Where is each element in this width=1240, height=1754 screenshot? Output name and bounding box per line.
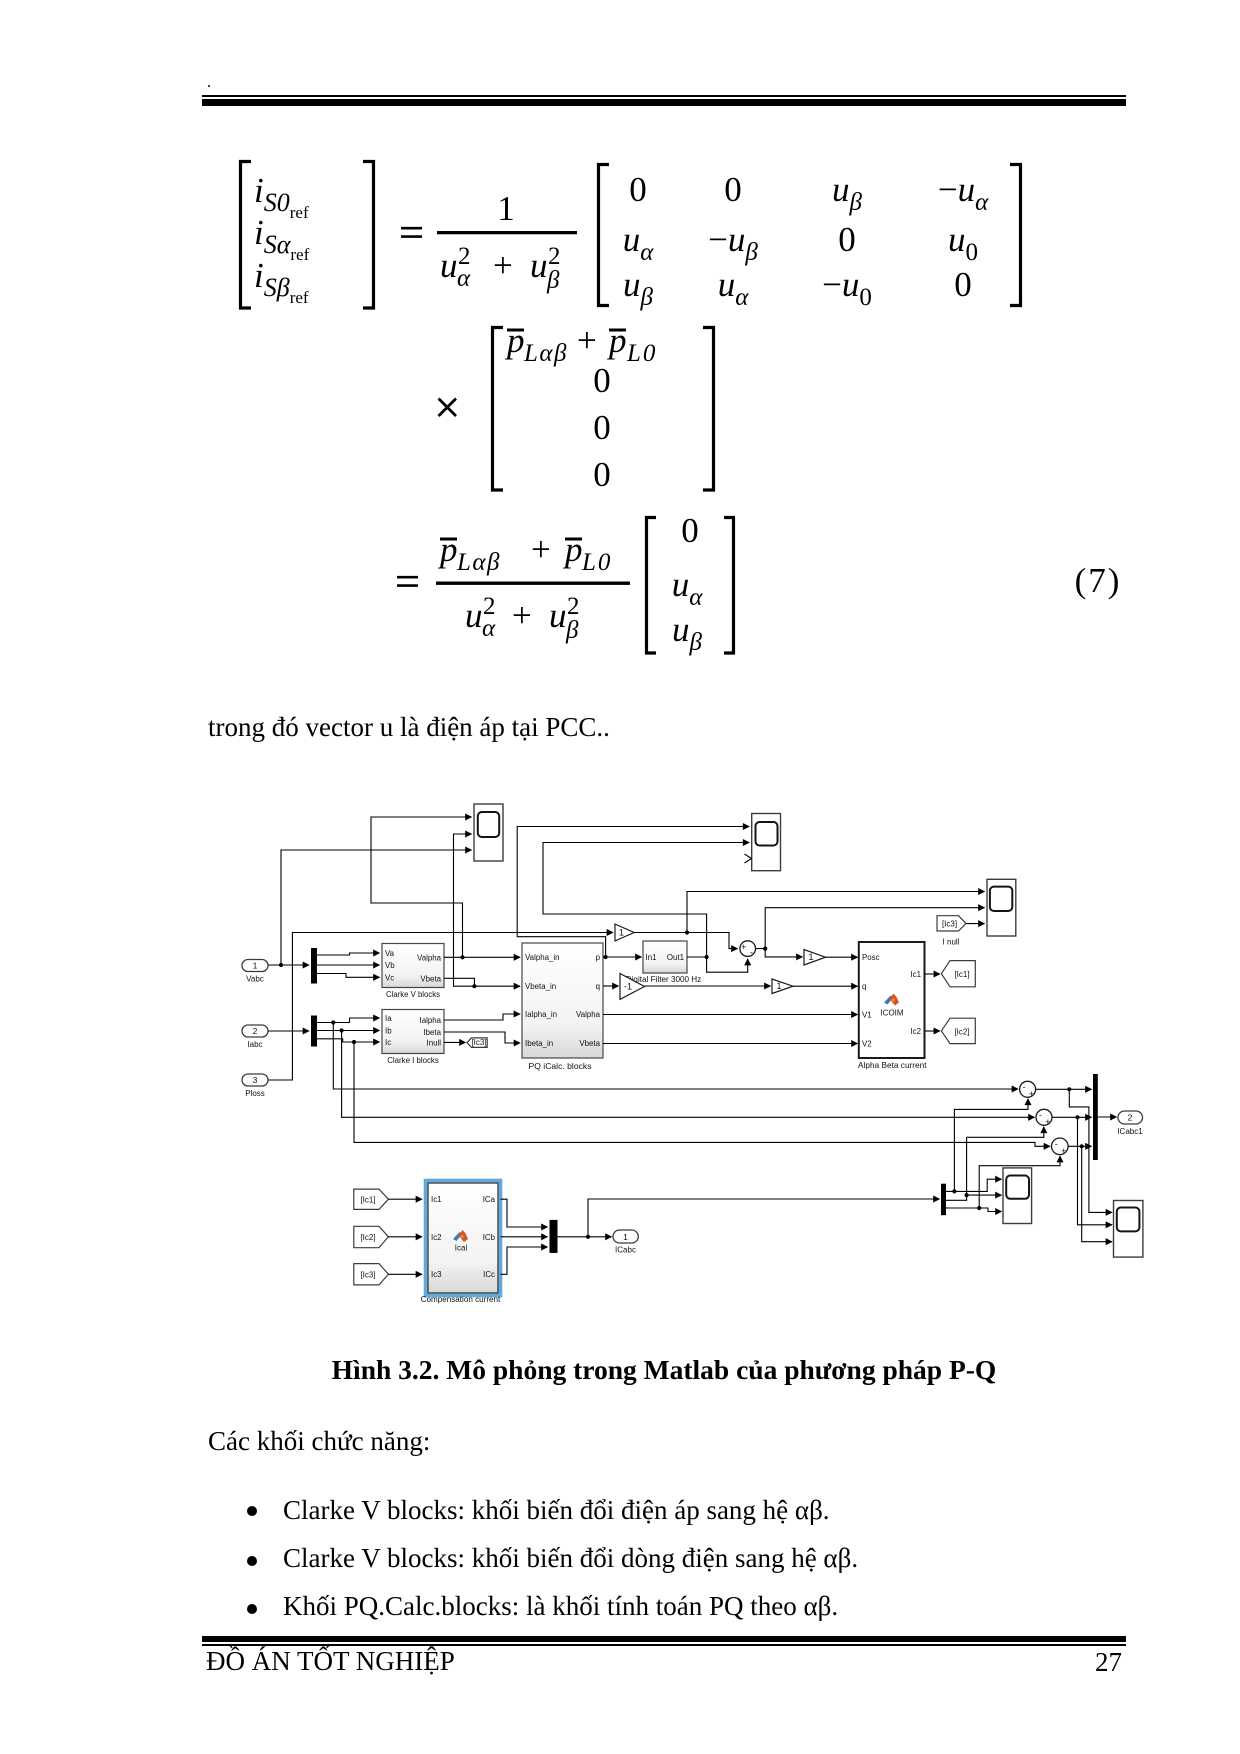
DIAGRAM SVG: [230, 790, 1180, 1320]
caption: [205, 1356, 1123, 1384]
matlab logo: [884, 994, 899, 1006]
svg-text:0: 0: [838, 220, 856, 259]
wire Ic tap to sum C: [354, 1042, 1050, 1146]
svg-text:Inull: Inull: [427, 1038, 442, 1047]
svg-text:u: u: [465, 596, 483, 635]
junction demux out1 tap: [952, 1189, 956, 1193]
junction ICabc: [586, 1235, 590, 1239]
equals 1: [401, 228, 422, 236]
svg-text:Vabc: Vabc: [246, 975, 264, 984]
matrix bracket right: [1010, 165, 1021, 306]
wire Vbeta branch to scope1 in2: [454, 834, 475, 986]
svg-text:(7): (7): [1075, 561, 1122, 600]
svg-text:Valpha_in: Valpha_in: [525, 953, 560, 962]
wire sum B out to big mux: [1052, 1116, 1092, 1118]
svg-text:V2: V2: [862, 1040, 872, 1049]
svg-text:q: q: [596, 982, 600, 991]
svg-text:p: p: [562, 530, 583, 569]
svg-text:[Ic2]: [Ic2]: [360, 1233, 375, 1242]
junction G1 out: [685, 930, 689, 934]
junction Vbeta: [472, 984, 476, 988]
svg-text:−u0: −u0: [822, 265, 872, 311]
svg-text:β: β: [546, 267, 560, 294]
wire q to gain G2: [603, 985, 619, 987]
wire demux out3 to scope4 in3: [946, 1208, 1002, 1212]
svg-text:[Ic3]: [Ic3]: [471, 1038, 486, 1047]
svg-text:−uα: −uα: [938, 170, 989, 216]
svg-text:Out1: Out1: [667, 953, 684, 962]
svg-text:0: 0: [593, 455, 611, 494]
wire tag Ic1 to Compensation: [388, 1198, 422, 1200]
svg-text:+: +: [1029, 1089, 1034, 1099]
svg-text:Lαβ: Lαβ: [523, 340, 568, 367]
rhs vector bracket left: [647, 518, 657, 654]
svg-text:Valpha: Valpha: [576, 1010, 601, 1019]
svg-text:Vbeta_in: Vbeta_in: [525, 982, 556, 991]
junction sum A out: [1067, 1087, 1071, 1091]
tiny period above header rule: [208, 85, 210, 87]
svg-text:[Ic3]: [Ic3]: [942, 919, 957, 928]
wire sum C branch to scope5 in3: [1082, 1146, 1112, 1241]
svg-text:Ibeta: Ibeta: [423, 1028, 441, 1037]
svg-text:Ic: Ic: [385, 1038, 391, 1047]
times sign: [439, 399, 457, 417]
wire ICabc branch to demux: [588, 1199, 940, 1237]
svg-text:1: 1: [497, 189, 515, 228]
wire ICb to mux3: [501, 1236, 548, 1238]
wire tag Ic3 to Compensation: [388, 1273, 422, 1275]
mux V (black bar): [311, 948, 317, 984]
section lead: [208, 1428, 430, 1455]
svg-text:ICb: ICb: [483, 1233, 496, 1242]
svg-text:2: 2: [253, 1026, 258, 1036]
wire ICa to mux3: [501, 1199, 548, 1227]
svg-text:3: 3: [253, 1075, 258, 1085]
svg-text:PQ iCalc. blocks: PQ iCalc. blocks: [529, 1062, 592, 1071]
wire G1 branch to scope3 in1: [687, 892, 985, 933]
scope 1: [474, 804, 503, 861]
svg-text:-: -: [1055, 1139, 1058, 1149]
svg-text:Vc: Vc: [385, 973, 394, 982]
svg-text:L0: L0: [581, 549, 612, 576]
scope 2: [745, 814, 781, 871]
svg-text:Ic1: Ic1: [910, 970, 921, 979]
block Clarke I blocks: [382, 1010, 444, 1066]
block PQ iCalc. blocks: [522, 943, 603, 1071]
svg-text:ICabc1: ICabc1: [1117, 1127, 1143, 1136]
svg-text:p: p: [596, 953, 601, 962]
block Digital Filter 3000 Hz: [626, 941, 702, 984]
svg-text:[Ic2]: [Ic2]: [954, 1027, 969, 1036]
wire tap2 to sum B bottom: [967, 1127, 1044, 1195]
svg-text:Clarke V blocks: Clarke V blocks: [386, 990, 440, 999]
svg-text:0: 0: [629, 170, 647, 209]
junction sum C out: [1080, 1144, 1084, 1148]
pbar_Lab + pbar_L0: [507, 329, 524, 332]
junction Ic tap: [352, 1040, 356, 1044]
wire Vabc to V-mux: [268, 964, 309, 966]
svg-text:I null: I null: [943, 938, 960, 947]
wire Ic2 to goto tag: [925, 1030, 940, 1032]
svg-text:Vb: Vb: [385, 961, 395, 970]
input port 2 Iabc: [242, 1025, 268, 1049]
svg-text:Ialpha: Ialpha: [420, 1016, 442, 1025]
svg-text:-: -: [1039, 1110, 1042, 1120]
svg-text:Clarke I blocks: Clarke I blocks: [387, 1056, 439, 1065]
svg-text:u0: u0: [948, 220, 978, 266]
output port 2 ICabc1: [1117, 1111, 1143, 1136]
scope 5: [1114, 1201, 1143, 1258]
sum A: [1020, 1081, 1036, 1099]
header double rule: thin over thick: [202, 95, 1126, 97]
wire I-mux out a to Ia: [317, 1018, 380, 1023]
junction demux out3 tap: [977, 1206, 981, 1210]
svg-text:p: p: [437, 530, 458, 569]
junction Vabc branch: [279, 963, 283, 967]
svg-text:[Ic1]: [Ic1]: [360, 1195, 375, 1204]
demux bar: [941, 1184, 946, 1216]
svg-text:2: 2: [483, 593, 496, 620]
svg-text:L0: L0: [626, 340, 657, 367]
wire Out1 to sum S1 bottom: [687, 957, 748, 972]
svg-text:+: +: [577, 321, 597, 360]
svg-text:Posc: Posc: [862, 953, 880, 962]
wire p branch to scope2 in1: [517, 827, 749, 958]
svg-text:2: 2: [1128, 1113, 1133, 1123]
svg-text:1: 1: [623, 1232, 628, 1242]
svg-text:Vbeta: Vbeta: [579, 1039, 600, 1048]
gain G1 value 1: [615, 924, 634, 941]
wire V-mux out c to Vc: [317, 974, 380, 978]
bullets: [247, 1506, 257, 1516]
wire S1 out to gain G4: [756, 949, 803, 957]
svg-text:q: q: [862, 982, 866, 991]
svg-text:1: 1: [808, 952, 813, 962]
svg-text:[Ic3]: [Ic3]: [360, 1270, 375, 1279]
wire Vbeta to PQ: [444, 978, 520, 986]
svg-text:0: 0: [724, 170, 742, 209]
wire Iabc to I-mux: [268, 1030, 309, 1032]
sum S1: [740, 941, 756, 958]
junction Out1: [705, 955, 709, 959]
svg-text:Lαβ: Lαβ: [456, 549, 501, 576]
output port 1 ICabc: [613, 1230, 638, 1254]
wire ICc to mux3: [501, 1247, 548, 1274]
svg-text:0: 0: [593, 408, 611, 447]
from tag Ic3 bottom: [354, 1264, 389, 1285]
svg-text:Vbeta: Vbeta: [420, 974, 441, 983]
paragraph: [208, 714, 610, 741]
svg-text:Iabc: Iabc: [247, 1040, 262, 1049]
footer rule: thick over thin: [202, 1636, 1126, 1642]
svg-text:Ploss: Ploss: [245, 1089, 265, 1098]
svg-text:ICa: ICa: [483, 1195, 496, 1204]
fraction 2 numerator: [440, 538, 457, 541]
block Alpha Beta current: [858, 942, 927, 1070]
wire big mux out to port ICabc1: [1098, 1116, 1117, 1118]
EQUATION SVG: [0, 0, 1240, 700]
from tag Ic3 to scope3: [937, 916, 966, 947]
svg-text:Valpha: Valpha: [417, 953, 442, 962]
svg-text:Ibeta_in: Ibeta_in: [525, 1039, 553, 1048]
svg-text:uα: uα: [672, 565, 704, 611]
junction S1 out: [763, 947, 767, 951]
svg-text:-: -: [1023, 1082, 1026, 1092]
svg-text:+: +: [741, 942, 746, 952]
svg-text:u: u: [440, 246, 458, 285]
wire V-mux out a to Va: [317, 953, 380, 955]
svg-text:2: 2: [548, 243, 561, 270]
junction p: [604, 955, 608, 959]
block Clarke V blocks: [382, 944, 444, 1000]
svg-text:p: p: [504, 321, 525, 360]
fraction 1: bar: [437, 231, 577, 234]
wire G2 out to gain G3: [645, 985, 771, 987]
gain G3 value 1: [772, 979, 793, 994]
wire p to Digital Filter: [603, 956, 642, 958]
wire sum B branch to scope5 in2: [1078, 1117, 1113, 1225]
svg-text:Ic1: Ic1: [431, 1195, 442, 1204]
mid vector bracket left: [493, 328, 504, 491]
wire Out1 branch to scope2 in2: [543, 843, 749, 958]
wire Ia tap to sum A: [333, 1023, 1018, 1090]
junction sum B out: [1075, 1115, 1079, 1119]
wire S1 branch to scope3 in2: [765, 908, 984, 949]
wire Ic1 to goto tag: [925, 973, 940, 975]
big mux bar: [1093, 1074, 1098, 1160]
svg-text:+: +: [512, 596, 532, 635]
wire G3 out to q port: [793, 985, 858, 987]
from tag Ic1 bottom: [354, 1189, 389, 1209]
wire sum C out to big mux: [1068, 1145, 1091, 1147]
svg-text:-1: -1: [624, 982, 632, 992]
sum B: [1036, 1109, 1052, 1127]
svg-text:ICabc: ICabc: [615, 1245, 636, 1254]
mux3 bar: [550, 1220, 558, 1253]
svg-text:Ialpha_in: Ialpha_in: [525, 1010, 557, 1019]
svg-text:Ib: Ib: [385, 1027, 392, 1036]
wire Ic3 tag to scope3 in3: [966, 923, 985, 925]
svg-text:0: 0: [954, 265, 972, 304]
wire tap3 to sum C bottom: [979, 1156, 1060, 1208]
svg-text:0: 0: [681, 511, 699, 550]
svg-text:ICc: ICc: [483, 1270, 495, 1279]
mux I (black bar): [311, 1016, 317, 1047]
wire demux out1 to scope4 in1: [946, 1179, 1002, 1191]
matrix bracket left: [599, 165, 610, 306]
junction demux out2 tap: [965, 1193, 969, 1197]
wire Ibeta to PQ: [444, 1032, 520, 1043]
wire V-mux out b to Vb: [317, 964, 380, 966]
wire Ploss to gain G1: [268, 933, 613, 1081]
wire Vabc branch to scope1 in3: [281, 850, 472, 965]
svg-text:β: β: [565, 617, 579, 644]
svg-text:Va: Va: [385, 949, 395, 958]
svg-text:uβ: uβ: [672, 610, 703, 656]
block Compensation current (selected, blue): [421, 1181, 501, 1305]
svg-text:p: p: [606, 321, 627, 360]
wire Valpha to PQ: [444, 956, 520, 958]
goto tag Ic2: [941, 1018, 975, 1043]
svg-text:0: 0: [593, 361, 611, 400]
wire PQ Valpha out to V1: [603, 1014, 858, 1016]
junction Ib tap: [340, 1028, 344, 1032]
wire Ialpha to PQ: [444, 1014, 520, 1020]
wire mux3 out to port ICabc: [558, 1236, 612, 1238]
input port 1 Vabc: [242, 960, 268, 984]
scope 4: [1003, 1168, 1032, 1224]
scope 3: [987, 879, 1016, 936]
svg-text:2: 2: [458, 243, 471, 270]
svg-text:−uβ: −uβ: [708, 220, 758, 266]
wire demux out2 to scope4 in2: [946, 1195, 1002, 1200]
wire I-mux out b to Ib: [317, 1030, 380, 1032]
goto tag Ic3 small: [467, 1038, 487, 1048]
svg-text:+: +: [1045, 1117, 1050, 1127]
svg-text:V1: V1: [862, 1011, 872, 1020]
equals 2: [397, 577, 418, 585]
svg-text:2: 2: [567, 593, 580, 620]
gain G2 value -1: [620, 974, 645, 1000]
wire G4 out to Posc: [826, 956, 858, 958]
lhs vector bracket right: [363, 162, 374, 309]
svg-text:+: +: [1061, 1146, 1066, 1156]
svg-text:-: -: [750, 948, 753, 958]
rhs vector bracket right: [724, 518, 734, 654]
svg-text:uβ: uβ: [832, 170, 863, 216]
svg-text:Ic3: Ic3: [431, 1270, 442, 1279]
mid vector bracket right: [703, 328, 714, 491]
from tag Ic2 bottom: [354, 1226, 389, 1247]
wire I-mux out c to Ic: [317, 1039, 380, 1042]
svg-text:uα: uα: [623, 220, 655, 266]
svg-text:u: u: [530, 246, 548, 285]
wire Ib tap to sum B: [342, 1031, 1035, 1118]
svg-text:+: +: [531, 530, 551, 569]
svg-text:1: 1: [619, 928, 624, 938]
svg-text:Ical: Ical: [455, 1244, 468, 1253]
svg-text:uβ: uβ: [623, 265, 654, 311]
goto tag Ic1: [941, 961, 975, 987]
svg-text:[Ic1]: [Ic1]: [954, 970, 969, 979]
svg-text:uα: uα: [718, 265, 750, 311]
lhs vector bracket left: [241, 162, 252, 309]
svg-text:Compensation current: Compensation current: [421, 1295, 501, 1304]
wire sum A branch to scope5 in1: [1069, 1089, 1112, 1212]
svg-text:Ia: Ia: [385, 1014, 392, 1023]
wire G1 out to sum S1: [634, 933, 738, 949]
svg-text:In1: In1: [646, 953, 657, 962]
wire tap1 to sum A bottom: [954, 1099, 1028, 1192]
input port 3 Ploss: [242, 1074, 268, 1098]
wire tag Ic2 to Compensation: [388, 1236, 422, 1238]
wire PQ Vbeta out to V2: [603, 1043, 858, 1045]
svg-text:Alpha Beta current: Alpha Beta current: [858, 1061, 927, 1070]
wire Inull to goto Ic3: [444, 1041, 466, 1043]
wire Valpha branch to scope1 in1: [371, 817, 472, 957]
svg-text:u: u: [549, 596, 567, 635]
svg-text:Ic2: Ic2: [431, 1233, 442, 1242]
svg-text:Ic2: Ic2: [910, 1027, 921, 1036]
junction Valpha: [460, 955, 464, 959]
wire sum A out to big mux: [1036, 1088, 1092, 1090]
svg-text:ICOIM: ICOIM: [880, 1009, 903, 1018]
svg-text:+: +: [493, 246, 513, 285]
junction Ia tap: [331, 1020, 335, 1024]
sum C: [1052, 1138, 1069, 1156]
svg-text:1: 1: [253, 961, 258, 971]
matlab logo Ical: [453, 1230, 468, 1242]
gain G4 value 1: [804, 950, 826, 966]
svg-text:1: 1: [776, 981, 781, 991]
fraction 2 bar: [436, 582, 630, 585]
